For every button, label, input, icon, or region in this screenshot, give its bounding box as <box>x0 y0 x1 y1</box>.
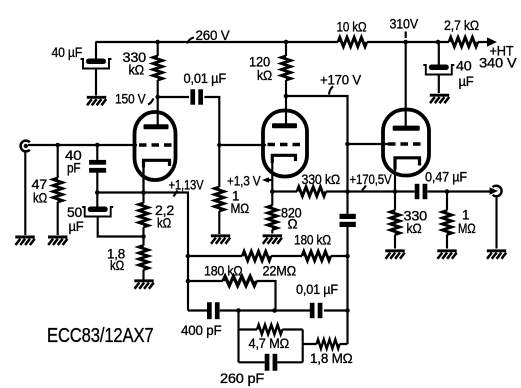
node rail-120k <box>284 40 289 45</box>
wire 40uF left drop <box>95 42 97 59</box>
node grid V3 <box>345 142 350 147</box>
wire 0.47 to output <box>428 190 491 192</box>
terminal input <box>21 141 30 152</box>
resistor 22M <box>242 251 271 260</box>
resistor 330k feedback <box>297 187 326 196</box>
wire cathode V3 lead <box>394 166 396 211</box>
wire row3 right <box>324 309 348 311</box>
capacitor 50uF electrolytic <box>82 207 113 217</box>
node row1-col347 <box>345 254 350 259</box>
svg-text:1,8 MΩ: 1,8 MΩ <box>310 351 353 366</box>
svg-text:Ω: Ω <box>288 217 298 232</box>
tick 260V <box>187 38 194 44</box>
svg-text:ECC83/12AX7: ECC83/12AX7 <box>47 325 154 347</box>
wire input line <box>28 144 137 146</box>
node anode V1 <box>155 95 160 100</box>
node 50uF return <box>141 234 146 239</box>
wire cathode V2 row <box>272 190 297 192</box>
ground input <box>15 237 34 245</box>
resistor 120k V2 anode <box>281 56 290 80</box>
wire input terminal to ground <box>24 151 26 236</box>
wire below 40uF left <box>95 69 97 96</box>
ground 47k <box>48 237 67 245</box>
tick +170V <box>329 87 333 95</box>
capacitor 40pF <box>89 160 106 173</box>
wire box top branch <box>239 328 303 330</box>
resistor 330k V1 anode <box>153 56 162 80</box>
node row2 left <box>186 279 191 284</box>
wire box bottom branch <box>239 361 303 363</box>
node grid V2 <box>217 143 221 147</box>
capacitor 40uF right electrolytic <box>423 65 454 75</box>
node rail-40uF right <box>436 40 441 45</box>
tick +170.5V <box>362 186 366 191</box>
resistor 2.2k <box>139 203 148 227</box>
resistor 820 <box>268 206 277 230</box>
node row3-col347 <box>345 308 350 313</box>
capacitor 40uF left electrolytic <box>81 59 112 69</box>
ground output <box>487 251 506 259</box>
resistor 4.7M <box>257 325 282 334</box>
wire rail to 330k <box>157 42 159 56</box>
tick 150V <box>148 99 154 105</box>
wire 40pF top <box>96 145 98 160</box>
svg-text:330 kΩ: 330 kΩ <box>302 172 341 187</box>
wire cathode V1 down <box>142 167 144 203</box>
svg-text:0,01 µF: 0,01 µF <box>184 71 227 86</box>
capacitor interstage at x347 <box>340 214 356 227</box>
svg-text:pF: pF <box>67 161 81 176</box>
wire 1.8M row <box>303 343 348 345</box>
wire output terminal ground <box>495 197 497 249</box>
wire HT rail <box>96 41 490 43</box>
capacitor 0.01uF coupling 1 <box>190 89 203 104</box>
resistor 1.8M <box>317 339 340 348</box>
wire row3 left <box>188 309 207 311</box>
svg-text:40 µF: 40 µF <box>52 45 83 60</box>
node cathode V2 <box>270 189 275 194</box>
node row3 row2drop <box>272 308 277 313</box>
wire 820 bottom <box>271 230 273 234</box>
tube V2 <box>263 111 307 177</box>
node input-47k <box>55 143 60 148</box>
svg-text:340 V: 340 V <box>479 56 518 71</box>
resistor 1.8k <box>139 246 148 270</box>
wire anode V1 to C 0.01 <box>158 96 189 98</box>
ground 820 <box>263 236 282 244</box>
svg-text:µF: µF <box>459 74 474 89</box>
wire 47k top <box>57 145 59 178</box>
ground 330k V3 <box>385 251 404 259</box>
resistor 330k V3 cathode <box>390 211 399 235</box>
ground 40uF left <box>87 97 106 105</box>
wire 330k V3 bottom <box>394 235 396 249</box>
svg-text:kΩ: kΩ <box>110 258 124 273</box>
wire box left <box>237 311 239 363</box>
node anode V2 <box>284 94 289 99</box>
wire row2 <box>188 281 276 311</box>
resistor 47k <box>53 178 62 202</box>
node rail-330k <box>155 40 160 45</box>
wire grid V3 <box>348 143 391 145</box>
tick +1.13V <box>174 191 178 197</box>
svg-text:0,47 µF: 0,47 µF <box>425 170 467 185</box>
node row3 box <box>236 308 241 313</box>
svg-text:+1,3 V: +1,3 V <box>227 174 261 189</box>
node input-40pF <box>95 143 100 148</box>
svg-text:kΩ: kΩ <box>33 191 47 206</box>
svg-text:150 V: 150 V <box>115 92 146 107</box>
wire 1.8k bottom <box>142 270 144 281</box>
resistor 180k row1 <box>302 251 331 260</box>
svg-text:0,01 µF: 0,01 µF <box>296 282 338 297</box>
svg-text:400 pF: 400 pF <box>181 323 222 338</box>
resistor 180k row2 <box>223 276 256 285</box>
svg-text:2,7 kΩ: 2,7 kΩ <box>444 18 479 33</box>
arrow +HT <box>487 37 497 46</box>
wire grid V2 <box>219 144 266 146</box>
wire box right <box>302 330 304 363</box>
arrow +1.3V <box>262 177 269 183</box>
svg-text:kΩ: kΩ <box>257 68 272 83</box>
svg-text:kΩ: kΩ <box>407 221 422 236</box>
svg-text:10 kΩ: 10 kΩ <box>337 20 367 35</box>
resistor 10k <box>338 37 367 46</box>
tick 310V <box>405 32 407 39</box>
wire V3 anode from rail <box>403 40 408 45</box>
svg-text:4,7 MΩ: 4,7 MΩ <box>249 336 290 351</box>
wire rail to 40uF right <box>438 42 440 65</box>
svg-text:kΩ: kΩ <box>129 63 145 78</box>
wire 1M to ground <box>218 211 220 234</box>
node 1M output <box>445 189 450 194</box>
tube V1 <box>135 112 176 180</box>
wire below 40uF right <box>438 75 440 94</box>
capacitor 0.01uF 2 <box>310 303 323 318</box>
node col347 row191 <box>345 189 350 194</box>
resistor 2.7k <box>449 37 478 46</box>
wire mid line to cathode V1 <box>97 193 188 311</box>
wire 50uF bottom <box>97 193 143 237</box>
wire rail to 120k <box>285 42 287 56</box>
wire cathode V2 to 820 <box>271 192 273 206</box>
svg-text:kΩ: kΩ <box>157 216 171 231</box>
wire 1M bottom <box>446 235 448 249</box>
svg-text:+170 V: +170 V <box>320 73 362 88</box>
wire below interstage cap <box>346 227 348 344</box>
resistor 1M grid leak V2 <box>215 187 224 211</box>
capacitor 400pF <box>207 302 220 319</box>
wire row1 <box>188 255 348 257</box>
wire +170V line <box>286 96 348 214</box>
svg-text:MΩ: MΩ <box>458 221 476 236</box>
wire 47k bottom <box>57 202 59 235</box>
ground 1.8k <box>134 281 153 289</box>
svg-text:50: 50 <box>67 205 82 220</box>
resistor 1M output <box>442 211 451 235</box>
capacitor 0.47uF <box>415 184 428 199</box>
svg-text:180 kΩ: 180 kΩ <box>204 264 243 279</box>
ground 40uF right <box>430 95 449 103</box>
svg-text:180 kΩ: 180 kΩ <box>294 233 331 248</box>
ground 1M output <box>437 251 456 259</box>
node row1 left <box>186 254 191 259</box>
tube V3 <box>383 110 429 176</box>
capacitor 260pF <box>265 354 278 371</box>
terminal output <box>490 186 502 197</box>
wire 40pF bottom <box>96 173 98 193</box>
ground 1M grid <box>211 236 230 244</box>
wire C 0.01 to grid column <box>204 97 219 187</box>
svg-text:+1,13V: +1,13V <box>169 178 205 193</box>
wire 330k to cathode V3 <box>326 190 415 192</box>
wire cathode V1 lead <box>142 166 144 193</box>
wire cathode V2 lead <box>271 161 273 192</box>
svg-text:22MΩ: 22MΩ <box>263 264 297 279</box>
wire 330k to anode V1 <box>157 80 159 126</box>
node cathode V3 <box>393 189 398 194</box>
wire row3 mid <box>220 309 310 311</box>
wire 1M output <box>446 192 448 211</box>
svg-text:+170,5V: +170,5V <box>350 172 393 187</box>
svg-text:260 pF: 260 pF <box>220 371 264 386</box>
node cathode V1 <box>141 190 146 195</box>
svg-text:40: 40 <box>456 59 472 74</box>
svg-text:MΩ: MΩ <box>231 201 250 216</box>
svg-text:310V: 310V <box>390 17 419 32</box>
wire 2.2k to 1.8k <box>142 227 144 246</box>
node 40pF-50uF <box>95 190 100 195</box>
svg-text:µF: µF <box>69 219 84 234</box>
svg-text:260 V: 260 V <box>196 28 231 43</box>
wire 120k to anode V2 <box>285 80 287 124</box>
